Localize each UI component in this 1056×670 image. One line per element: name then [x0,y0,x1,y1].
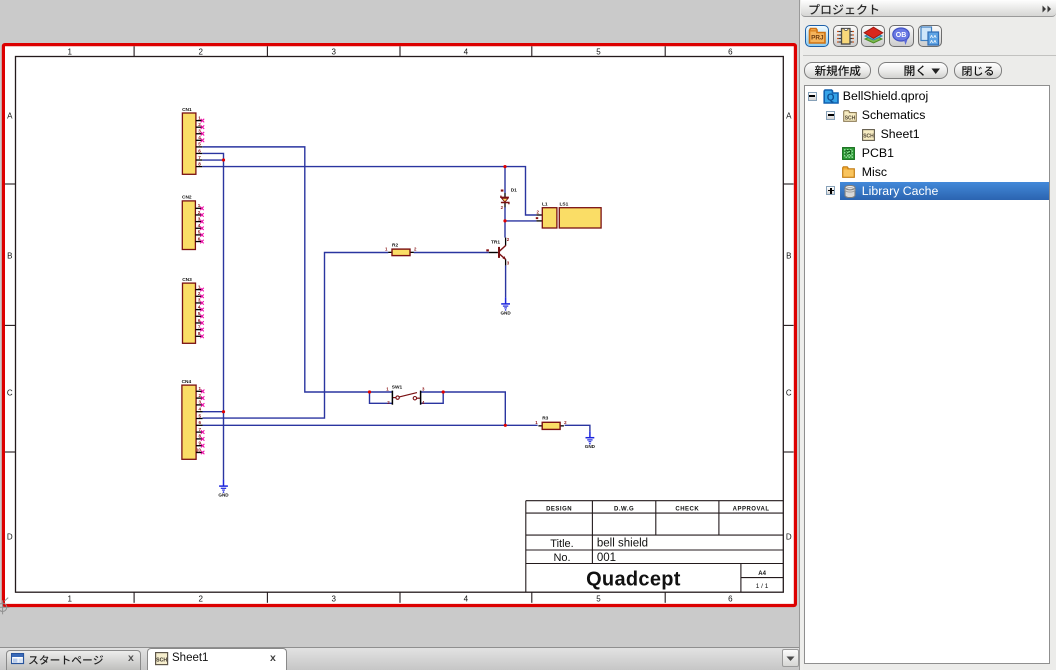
svg-text:GND: GND [500,310,511,315]
svg-text:6: 6 [198,420,201,425]
wire: diode top connection [504,167,506,193]
svg-text:GND: GND [218,493,229,498]
svg-text:B: B [786,251,791,260]
right panel [803,0,1056,670]
svg-text:D: D [7,532,13,541]
separator strip between canvas and panel [799,0,803,670]
wire: CN1 pin7 to junction [202,159,223,161]
svg-text:1 / 1: 1 / 1 [756,583,769,590]
svg-text:6: 6 [728,594,733,603]
svg-text:CN3: CN3 [182,277,192,283]
svg-text:D: D [786,532,792,541]
tree texts [843,89,928,103]
wire: CN1 pin8 to diode net and L1 pin2 [202,167,536,215]
svg-text:001: 001 [597,552,616,564]
red border frame of sheet [3,45,795,606]
svg-text:R3: R3 [542,416,548,422]
svg-text:SCH: SCH [845,115,856,121]
ground GND (R3) [585,431,596,449]
svg-text:3: 3 [331,47,336,56]
svg-text:4: 4 [464,47,469,56]
svg-text:CN2: CN2 [182,195,192,201]
svg-text:CN4: CN4 [182,379,192,385]
wire: SW1 right loop [421,392,444,403]
wire: CN4 pin4 to junction [203,411,224,413]
wire: R2 left to CN4 pin5 [203,253,389,419]
svg-text:SCH: SCH [863,134,874,140]
svg-text:10: 10 [196,447,202,452]
wire: TR1 base to R2 [414,252,489,254]
svg-text:R2: R2 [392,243,398,249]
toolbar icon buttons [805,25,829,48]
wire: CN4 pin6 to R3 [203,424,538,426]
wire: SW1 right to junction at R3 net [443,392,505,425]
svg-text:B: B [7,251,12,260]
selected row highlight [840,182,1049,201]
svg-text:CN1: CN1 [182,107,192,113]
svg-text:A4: A4 [758,571,766,577]
resistor R3 [535,416,567,430]
svg-text:7: 7 [198,155,201,160]
wire: R3 right to GND [565,425,590,431]
panel header [801,0,1056,17]
svg-text:SW1: SW1 [392,385,403,391]
diode D1 (zener) [501,187,518,210]
svg-text:TR1: TR1 [491,240,500,246]
wire: junction down to TR1 collector [504,221,506,238]
connector L1 [536,202,557,228]
svg-text:6: 6 [198,148,201,153]
transistor TR1 (NPN) [486,237,510,266]
title block texts [546,506,769,590]
bottom tab bar [0,647,799,670]
tree icons [823,89,839,104]
resistor R2 [385,243,417,256]
svg-text:A: A [7,111,13,120]
inner drawing-area border [16,57,784,593]
svg-text:2: 2 [198,47,203,56]
svg-text:3: 3 [331,594,336,603]
svg-text:5: 5 [198,413,201,418]
svg-text:6: 6 [728,47,733,56]
svg-text:OB: OB [896,32,907,39]
svg-text:GND: GND [585,444,596,449]
connector CN3 [182,277,204,343]
svg-text:8: 8 [198,161,201,166]
border zone column/row labels [7,47,792,603]
svg-text:4: 4 [464,594,469,603]
svg-text:CHECK: CHECK [675,506,699,512]
svg-text:APPROVAL: APPROVAL [733,506,770,512]
wire: TR1 emitter down to GND [505,265,507,297]
svg-text:bell shield: bell shield [597,538,648,550]
svg-text:PRJ: PRJ [811,35,824,42]
svg-text:C: C [7,388,13,397]
ground GND (CN1 pin6 net) [218,480,229,498]
connector CN1 [182,107,204,175]
tab-scroll dropdown button [782,649,799,667]
wire: diode bottom to junction to L1 pin1 [505,207,536,221]
ground GND (TR1 emitter) [500,297,511,315]
wire junction dots [222,158,507,426]
command buttons [804,62,871,80]
wire: CN1 pin5 to SW1 [202,147,392,392]
svg-text:2: 2 [198,594,203,603]
svg-text:Title.: Title. [550,538,573,550]
connector CN2 [182,195,204,250]
border zone tick lines [5,46,794,603]
svg-text:1: 1 [67,47,72,56]
svg-text:5: 5 [198,142,201,147]
svg-text:D.W.G: D.W.G [614,506,634,512]
svg-text:D1: D1 [511,187,517,193]
sheet background [0,0,799,647]
svg-text:A: A [786,111,792,120]
tab: start page (inactive) [6,650,141,670]
expand/collapse boxes [808,92,817,101]
project tree [804,85,1050,664]
svg-text:No.: No. [553,552,570,564]
svg-text:Quadcept: Quadcept [586,569,681,591]
wire: CN1 pin6 down to GND [202,153,223,479]
speaker LS1 [559,202,601,228]
wire: SW1 left pin loop [370,392,393,403]
svg-text:AA: AA [930,39,937,44]
svg-text:5: 5 [596,594,601,603]
svg-text:Q: Q [827,92,835,103]
svg-text:1: 1 [67,594,72,603]
svg-text:5: 5 [596,47,601,56]
svg-text:L1: L1 [542,202,548,208]
origin crosshair marker [0,598,10,615]
connector CN4 [182,379,205,459]
svg-text:SCH: SCH [156,657,167,663]
tab: Sheet1 (active) [147,648,287,670]
svg-text:DESIGN: DESIGN [546,506,572,512]
svg-text:4: 4 [198,407,201,412]
switch SW1 [386,385,425,405]
svg-text:C: C [786,388,792,397]
title block [526,501,784,593]
svg-text:LS1: LS1 [560,202,569,208]
